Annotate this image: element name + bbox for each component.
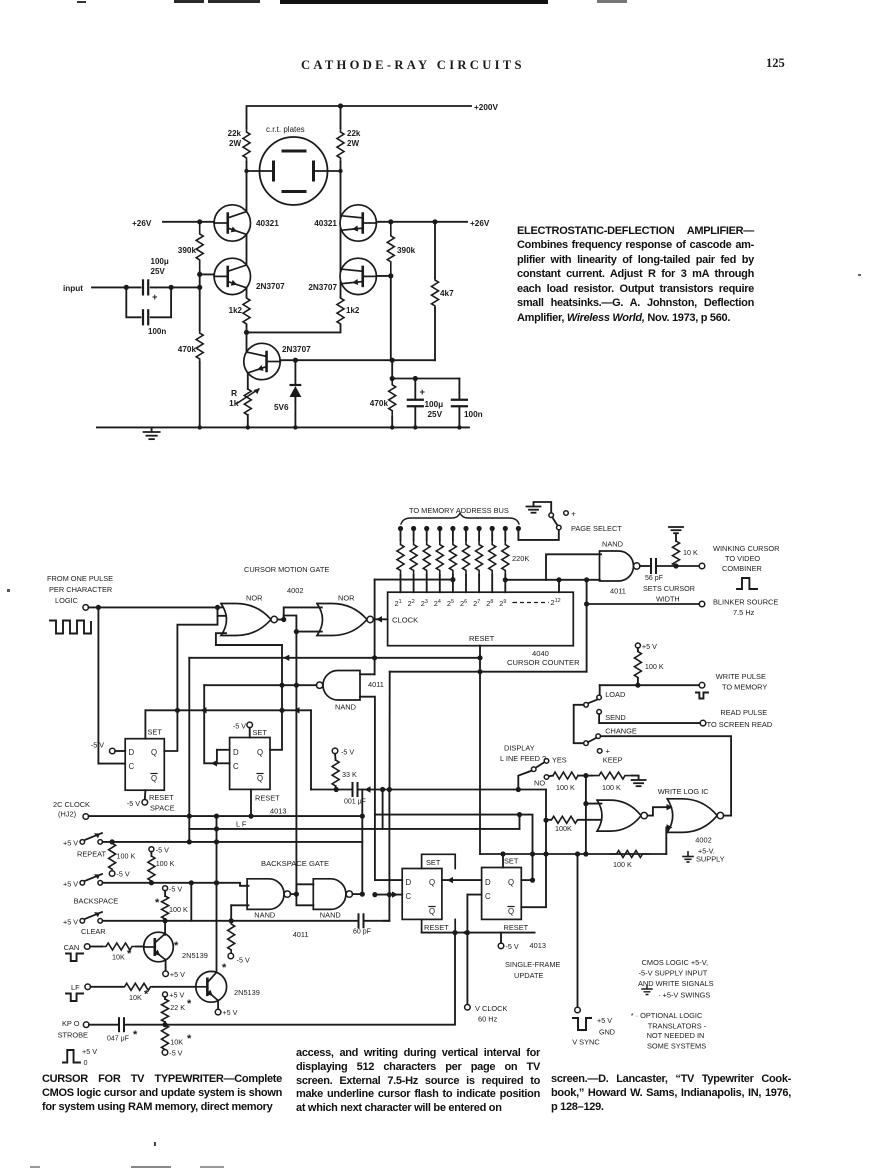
svg-text:C: C — [233, 762, 239, 771]
svg-text:D: D — [485, 878, 491, 887]
node NAND width pin2 tie — [584, 577, 589, 582]
node 4k7 top — [432, 219, 437, 224]
svg-text:CURSOR COUNTER: CURSOR COUNTER — [507, 658, 580, 667]
svg-text:TRANSLATORS -: TRANSLATORS - — [648, 1022, 707, 1031]
svg-text:60 Hz: 60 Hz — [478, 1015, 498, 1024]
svg-text:FROM ONE PULSE: FROM ONE PULSE — [47, 574, 113, 583]
svg-text:TO VIDEO: TO VIDEO — [725, 554, 760, 563]
svg-text:UPDATE: UPDATE — [514, 971, 543, 980]
svg-text:R: R — [231, 388, 237, 398]
wire NOR2 output to counter clock — [373, 618, 387, 620]
node left column plate tap — [244, 169, 248, 173]
resistor 22K KPO — [163, 992, 168, 997]
wire B1-B2 inverter ties — [296, 884, 313, 894]
svg-text:+5 V: +5 V — [222, 1008, 237, 1017]
svg-text:*: * — [187, 1033, 192, 1045]
svg-text:390k: 390k — [397, 246, 416, 255]
resistor 22k 2W right — [337, 128, 344, 162]
wire Q4 base — [376, 275, 390, 277]
svg-text:RESET: RESET — [149, 793, 174, 802]
svg-text:CURSOR MOTION GATE: CURSOR MOTION GATE — [244, 565, 329, 574]
wire B1 pin2 hook — [231, 904, 248, 906]
svg-text:LOGIC: LOGIC — [55, 596, 79, 605]
svg-text:125: 125 — [766, 56, 785, 70]
svg-text:390k: 390k — [178, 246, 197, 255]
wire +26V left rail — [163, 221, 214, 223]
svg-text:100 K: 100 K — [602, 783, 621, 792]
resistor address R4 — [437, 526, 442, 531]
svg-text:-5-V SUPPLY INPUT: -5-V SUPPLY INPUT — [639, 969, 708, 978]
svg-text:25V: 25V — [151, 267, 166, 276]
svg-text:L F: L F — [236, 820, 247, 829]
svg-text:-5 V: -5 V — [169, 1049, 182, 1058]
transistor Q7 2N5139 LF — [196, 971, 227, 1002]
wire NOR1 pin3 hook — [216, 633, 282, 645]
svg-text:WRITE PULSE: WRITE PULSE — [716, 672, 766, 681]
transistor Q5 2N3707 tail — [244, 343, 280, 379]
svg-text:Q: Q — [257, 774, 263, 783]
svg-text:SETS CURSOR: SETS CURSOR — [643, 584, 695, 593]
label box RESET FF3 — [421, 919, 423, 932]
svg-text:BLINKER SOURCE: BLINKER SOURCE — [713, 598, 778, 607]
svg-text:PER CHARACTER: PER CHARACTER — [49, 585, 112, 594]
wire tail bus — [247, 325, 341, 332]
svg-text:+: + — [420, 387, 426, 398]
wire clear bus — [103, 920, 359, 922]
svg-text:c.r.t. plates: c.r.t. plates — [266, 125, 305, 134]
resistor 100K supply bus — [610, 851, 649, 858]
wire W1 pin1 — [586, 803, 602, 805]
node 390k right top — [388, 219, 393, 224]
svg-text:-5 V: -5 V — [506, 942, 519, 951]
wire 2C clock bus — [83, 814, 89, 820]
capacitor C3 100u 25V output — [414, 379, 416, 400]
svg-text:2C CLOCK: 2C CLOCK — [53, 800, 90, 809]
svg-text:RESET: RESET — [469, 634, 495, 643]
svg-text:26: 26 — [460, 599, 467, 608]
wire bus 710 — [145, 709, 311, 711]
wire blinker line — [587, 603, 700, 605]
svg-text:WINKING CURSOR: WINKING CURSOR — [713, 544, 780, 553]
svg-text:40321: 40321 — [314, 219, 337, 228]
svg-text:SINGLE-FRAME: SINGLE-FRAME — [505, 960, 561, 969]
svg-text:-5 V: -5 V — [127, 799, 140, 808]
wire no node to write gate — [585, 776, 587, 854]
wire NAND-M pin2 — [360, 697, 375, 815]
svg-text:100 K: 100 K — [169, 905, 188, 914]
svg-text:100K: 100K — [555, 824, 572, 833]
node NOR2 pin2 — [294, 629, 299, 634]
wire yes contact down — [518, 771, 531, 790]
svg-text:BACKSPACE: BACKSPACE — [74, 897, 119, 906]
svg-text:CHANGE: CHANGE — [605, 727, 637, 736]
svg-text:+5 V: +5 V — [169, 991, 184, 1000]
svg-text:NAND: NAND — [254, 911, 275, 920]
svg-text:+: + — [571, 510, 576, 519]
svg-text:V SYNC: V SYNC — [572, 1038, 600, 1047]
wire bus down to 33K node — [310, 710, 312, 789]
switch SEND — [597, 710, 602, 715]
wire address tie vertical — [374, 580, 376, 675]
wire Q3 base — [200, 273, 214, 275]
wire FF4 SET stub — [502, 854, 504, 868]
svg-text:*: * — [155, 897, 160, 909]
wire FF2 D stub — [217, 749, 230, 751]
svg-text:0: 0 — [84, 1058, 88, 1067]
svg-text:Q: Q — [429, 878, 435, 887]
svg-text:047 μF: 047 μF — [107, 1036, 129, 1043]
svg-text:2N3707: 2N3707 — [308, 283, 337, 292]
terminal page select + — [564, 511, 569, 516]
wire FF2 reset stub — [250, 789, 252, 816]
svg-text:-5 V: -5 V — [237, 956, 250, 965]
svg-text:YES: YES — [552, 756, 567, 765]
transistor Q6 2N5139 CAN — [144, 932, 174, 962]
resistor 390k right — [387, 222, 394, 276]
wire bus 789 — [311, 789, 353, 791]
wire Q1 emitter to Q3 collector — [246, 234, 248, 265]
svg-text:*: * — [222, 962, 227, 974]
resistor 10K LF — [91, 986, 123, 988]
svg-text:SET: SET — [426, 858, 441, 867]
svg-text:7.5 Hz: 7.5 Hz — [733, 608, 755, 617]
scan artifact top bars — [77, 1, 86, 3]
svg-text:SPACE: SPACE — [150, 804, 175, 813]
node input after cap — [169, 285, 174, 290]
wire page select to ground — [534, 502, 552, 512]
svg-text:V CLOCK: V CLOCK — [475, 1004, 508, 1013]
svg-text:REPEAT: REPEAT — [77, 850, 107, 859]
capacitor 001uF — [352, 783, 354, 796]
svg-text:-5 V: -5 V — [117, 870, 130, 879]
wire vertical 189 reset to repeat — [188, 658, 190, 842]
wire left plate lead — [247, 170, 274, 172]
terminal FF1 reset -5V — [144, 790, 147, 799]
svg-text:NAND: NAND — [320, 911, 341, 920]
svg-text:*: * — [127, 948, 132, 960]
svg-text:4011: 4011 — [293, 930, 309, 939]
icon V sync pulse — [573, 1018, 591, 1030]
wire 4k7 bottom — [434, 308, 436, 360]
gate NAND B1 — [247, 879, 284, 910]
icon pulse strobe — [63, 1050, 80, 1063]
terminal pulse input — [83, 605, 89, 611]
terminal blinker source — [699, 601, 705, 607]
wire reset bus 658 — [189, 657, 480, 659]
gate NOR W1 — [597, 800, 641, 831]
svg-text:C: C — [129, 762, 135, 771]
svg-text:AND WRITE SIGNALS: AND WRITE SIGNALS — [638, 979, 714, 988]
ground page select — [527, 506, 541, 508]
svg-text:2N5139: 2N5139 — [182, 951, 208, 960]
resistor address R5 — [450, 526, 455, 531]
svg-text:RESET: RESET — [255, 794, 280, 803]
gate NAND mirror 4011 — [323, 671, 360, 701]
svg-text:*: * — [187, 998, 192, 1010]
wire Q2 emitter to Q4 collector — [340, 229, 342, 272]
svg-text:SET: SET — [253, 728, 268, 737]
capacitor C1 100u 25V — [142, 280, 144, 294]
svg-text:60 pF: 60 pF — [353, 929, 371, 936]
svg-text:1k2: 1k2 — [229, 306, 243, 315]
wire bus 671.7 — [390, 671, 587, 673]
wire +200V top rail — [247, 106, 472, 128]
wire change to write logic output — [601, 736, 731, 815]
resistor address R7 — [477, 526, 482, 531]
svg-text:CAN: CAN — [64, 943, 80, 952]
svg-text:*: * — [144, 989, 149, 1001]
svg-text:· +5-V SWINGS: · +5-V SWINGS — [658, 991, 710, 1000]
wire V CLOCK riser — [466, 895, 468, 1005]
resistor 470k right — [389, 379, 396, 418]
svg-text:SET: SET — [148, 728, 163, 737]
svg-text:L INE FEED ?: L INE FEED ? — [500, 754, 546, 763]
svg-text:input: input — [63, 284, 83, 293]
capacitor 60pF — [358, 914, 360, 927]
svg-text:23: 23 — [421, 599, 428, 608]
wire pulse input to NOR1 — [89, 606, 222, 608]
svg-text:+5 V: +5 V — [63, 839, 78, 848]
wire right branch to 22k — [340, 106, 342, 128]
resistor address R2 — [411, 526, 416, 531]
gate NOR W2 — [667, 799, 717, 833]
wire Q6 emitter — [165, 960, 167, 972]
svg-text:NOR: NOR — [338, 594, 354, 603]
terminal FF1 D -5V — [110, 748, 116, 754]
svg-text:1k: 1k — [229, 398, 239, 408]
node input to 470k — [197, 285, 202, 290]
resistor 390k left — [196, 222, 203, 272]
svg-text:4040: 4040 — [532, 649, 549, 658]
resistor R 1k variable — [244, 389, 251, 415]
svg-text:D: D — [129, 748, 135, 757]
svg-text:-5 V: -5 V — [156, 846, 169, 855]
icon clock waveform — [50, 621, 91, 634]
terminal +5V 100K load — [635, 643, 640, 648]
svg-text:100n: 100n — [464, 410, 483, 419]
svg-text:+5 V: +5 V — [642, 642, 657, 651]
svg-text:Q: Q — [151, 748, 157, 757]
svg-text:10K: 10K — [112, 953, 125, 962]
capacitor 047uF — [118, 1018, 120, 1031]
wire W1-W2 link — [647, 807, 669, 815]
transistor Q1 40321 left — [214, 205, 250, 241]
resistor 470k left — [199, 287, 201, 330]
switch CHANGE lever — [596, 734, 601, 739]
resistor 33K — [334, 754, 337, 760]
svg-text:2N3707: 2N3707 — [282, 345, 311, 354]
svg-text:4002: 4002 — [695, 836, 711, 845]
svg-text:TO SCREEN READ: TO SCREEN READ — [707, 720, 773, 729]
svg-text:4013: 4013 — [530, 941, 546, 950]
wire NAND-M pin1 — [360, 673, 375, 675]
svg-text:22 K: 22 K — [170, 1003, 185, 1012]
node no junction — [583, 773, 588, 778]
icon pulse LF — [66, 994, 83, 1002]
svg-text:470k: 470k — [370, 399, 389, 408]
svg-text:100 K: 100 K — [156, 859, 175, 868]
flip-flop FF2 4013 box — [230, 738, 270, 790]
svg-text:+5 V: +5 V — [170, 970, 185, 979]
wire repeat bus — [103, 841, 363, 843]
svg-text:Q: Q — [151, 774, 157, 783]
svg-text:CMOS LOGIC +5-V,: CMOS LOGIC +5-V, — [642, 958, 708, 967]
icon pulse winking — [737, 578, 757, 589]
wire branch to NAND pin1 — [546, 554, 601, 580]
svg-text:1k2: 1k2 — [346, 306, 360, 315]
wire Q7 emitter — [217, 1000, 219, 1009]
svg-text:22: 22 — [408, 599, 415, 608]
wire V SYNC hang — [577, 854, 579, 1007]
wire address bus lower tie 2^1-2^5 — [375, 579, 453, 581]
wire bus 829 — [189, 828, 519, 830]
svg-text:RESET: RESET — [504, 923, 529, 932]
svg-text:-5 V: -5 V — [233, 722, 246, 731]
resistor 100K no-2 — [592, 772, 632, 779]
wire NOR1 input step — [218, 607, 226, 615]
resistor address R1 — [398, 526, 403, 531]
svg-text:D: D — [406, 878, 412, 887]
wire right plate lead — [314, 170, 341, 172]
svg-text:-5 V: -5 V — [169, 885, 182, 894]
wire pulse to FF1 clock — [98, 607, 125, 763]
resistor 1k2 right — [340, 282, 342, 298]
resistor 4k7 — [432, 278, 439, 308]
resistor 10K KPO lower — [162, 1025, 169, 1050]
svg-text:LF: LF — [71, 983, 80, 992]
wire 2^12 output stub — [556, 577, 561, 582]
wire cap to output terminal — [656, 565, 702, 567]
capacitor 56pF — [640, 565, 649, 567]
terminal KEEP — [597, 749, 602, 754]
capacitor C4 100n output — [458, 379, 460, 400]
svg-text:27: 27 — [473, 599, 480, 608]
wire 390k left to input node — [199, 272, 201, 287]
svg-text:4k7: 4k7 — [440, 289, 454, 298]
wire NOR2 pin2 vertical to backspace gate output — [295, 632, 297, 895]
svg-text:C: C — [485, 892, 491, 901]
svg-text:56 pF: 56 pF — [645, 575, 663, 582]
svg-text:2N5139: 2N5139 — [234, 988, 260, 997]
svg-text:10K: 10K — [129, 993, 142, 1002]
svg-text:KP O: KP O — [62, 1019, 80, 1028]
svg-text:+5 V: +5 V — [63, 918, 78, 927]
svg-text:+200V: +200V — [474, 103, 498, 112]
icon pulse write — [696, 693, 708, 699]
svg-text:GND: GND — [599, 1028, 615, 1037]
wire Q5 base bus — [280, 360, 435, 361]
svg-text:100 K: 100 K — [645, 662, 664, 671]
wire W2 output — [724, 815, 732, 817]
svg-text:25V: 25V — [428, 410, 443, 419]
flip-flop FF1 4013 box — [125, 739, 164, 791]
wire FF4 Qbar to 100K node — [521, 790, 546, 908]
svg-text:(HJ2): (HJ2) — [58, 810, 76, 819]
svg-text:100n: 100n — [148, 327, 166, 336]
svg-text:+5 V: +5 V — [597, 1016, 612, 1025]
wire ground rail — [97, 426, 469, 428]
svg-text:D: D — [233, 748, 239, 757]
resistor 100K third — [163, 886, 168, 891]
node NOR1 output — [281, 617, 286, 622]
svg-text:*: * — [174, 940, 179, 952]
svg-text:NOT NEEDED IN: NOT NEEDED IN — [647, 1031, 705, 1040]
wire big box left vertical — [389, 672, 391, 790]
svg-text:SEND: SEND — [605, 713, 626, 722]
svg-text:Q: Q — [508, 878, 514, 887]
wire vertical 375 to FF3 D — [375, 815, 402, 881]
node top rail right branch — [338, 103, 343, 108]
svg-text:+26V: +26V — [132, 219, 152, 228]
wire 2^9 node bus — [503, 577, 508, 582]
wire bus 814 right — [375, 815, 533, 881]
resistor 100K repeat — [109, 842, 116, 871]
resistor 100K load — [637, 648, 639, 651]
svg-text:CLOCK: CLOCK — [392, 616, 418, 625]
svg-text:C: C — [406, 892, 412, 901]
wire switch common bracket — [574, 705, 584, 743]
wire bottom supply bus — [391, 360, 393, 378]
svg-text:100 K: 100 K — [613, 860, 632, 869]
node 10K tap — [673, 563, 678, 568]
wire reset bus FF34 — [422, 932, 535, 934]
svg-text:-5 V: -5 V — [341, 748, 354, 757]
wire 470k left to ground — [199, 362, 201, 427]
label box SET FF3 — [422, 854, 456, 868]
ground symbol — [151, 427, 153, 431]
wire Q5 collector from tail — [246, 332, 248, 352]
node Q4 base tap — [388, 273, 393, 278]
node Q3 base tap — [197, 272, 202, 277]
node input split — [124, 285, 129, 290]
wire FF1 set loop — [144, 710, 146, 738]
svg-text:Q: Q — [257, 748, 263, 757]
wire 1k2 left to tail — [246, 325, 248, 332]
svg-text:NAND: NAND — [335, 703, 356, 712]
svg-text:4011: 4011 — [610, 587, 626, 596]
wire right column 22k to Q2 — [340, 162, 342, 218]
svg-text:NO: NO — [534, 779, 545, 788]
IC 4040 cursor counter box — [388, 592, 574, 646]
svg-text:WIDTH: WIDTH — [656, 595, 680, 604]
node pulse input — [96, 605, 101, 610]
wire output up to NOR2 pin1 — [284, 607, 322, 619]
label dashed to 2^12 — [513, 602, 548, 604]
wire output to NOR2 pin2 — [284, 616, 297, 632]
svg-text:CATHODE-RAY CIRCUITS: CATHODE-RAY CIRCUITS — [301, 58, 525, 72]
svg-text:CLEAR: CLEAR — [81, 927, 106, 936]
wire NOR1 output — [277, 619, 283, 621]
svg-text:4013: 4013 — [270, 807, 286, 816]
resistor 1k2 left — [246, 288, 248, 297]
svg-text:10K: 10K — [170, 1038, 183, 1047]
svg-text:Q: Q — [508, 907, 514, 916]
resistor 22k 2W left — [243, 128, 250, 162]
svg-text:22k: 22k — [228, 129, 242, 138]
wire bus to FF2 clock — [204, 685, 229, 763]
svg-text:100μ: 100μ — [151, 257, 169, 266]
wire set bus 854 — [480, 853, 666, 855]
node B1 output — [291, 893, 297, 895]
svg-text:10 K: 10 K — [683, 548, 698, 557]
icon pulse CAN — [66, 954, 83, 962]
svg-text:COMBINER: COMBINER — [722, 564, 762, 573]
svg-text:29: 29 — [499, 599, 506, 608]
svg-text:22k: 22k — [347, 129, 361, 138]
wire counter reset vertical — [479, 646, 481, 854]
svg-text:+26V: +26V — [470, 219, 490, 228]
svg-text:2W: 2W — [229, 139, 241, 148]
